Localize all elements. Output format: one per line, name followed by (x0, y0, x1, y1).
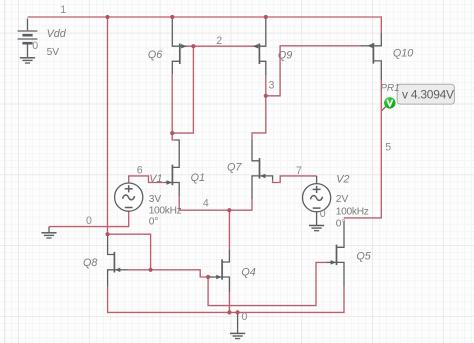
svg-text:3V: 3V (149, 194, 162, 205)
svg-text:100kHz: 100kHz (149, 205, 182, 216)
svg-text:6: 6 (137, 164, 143, 176)
svg-text:Q6: Q6 (148, 49, 162, 61)
svg-text:Q4: Q4 (241, 267, 255, 279)
svg-text:7: 7 (296, 165, 302, 177)
svg-text:PR1: PR1 (380, 83, 399, 94)
svg-text:0: 0 (32, 40, 38, 52)
svg-text:Q1: Q1 (191, 172, 205, 184)
svg-text:V1: V1 (149, 173, 162, 185)
svg-text:1: 1 (60, 4, 66, 16)
svg-text:Q5: Q5 (356, 250, 371, 262)
svg-text:Q7: Q7 (227, 162, 242, 174)
svg-text:5V: 5V (47, 47, 60, 58)
svg-text:5: 5 (385, 141, 391, 153)
svg-text:v 4.3094V: v 4.3094V (402, 87, 454, 101)
svg-text:0°: 0° (149, 216, 159, 227)
svg-text:Vdd: Vdd (47, 28, 67, 40)
svg-text:2V: 2V (336, 194, 349, 205)
svg-text:V2: V2 (336, 173, 349, 185)
svg-text:3: 3 (269, 79, 275, 91)
svg-text:0°: 0° (336, 218, 346, 229)
svg-text:0: 0 (242, 311, 248, 323)
svg-text:0: 0 (320, 208, 326, 220)
svg-text:2: 2 (216, 35, 222, 47)
svg-text:Q8: Q8 (83, 257, 97, 269)
svg-text:Q9: Q9 (278, 50, 292, 62)
svg-text:Q10: Q10 (393, 48, 413, 60)
svg-text:0: 0 (86, 215, 92, 227)
svg-text:100kHz: 100kHz (336, 207, 369, 218)
svg-text:4: 4 (203, 198, 209, 210)
